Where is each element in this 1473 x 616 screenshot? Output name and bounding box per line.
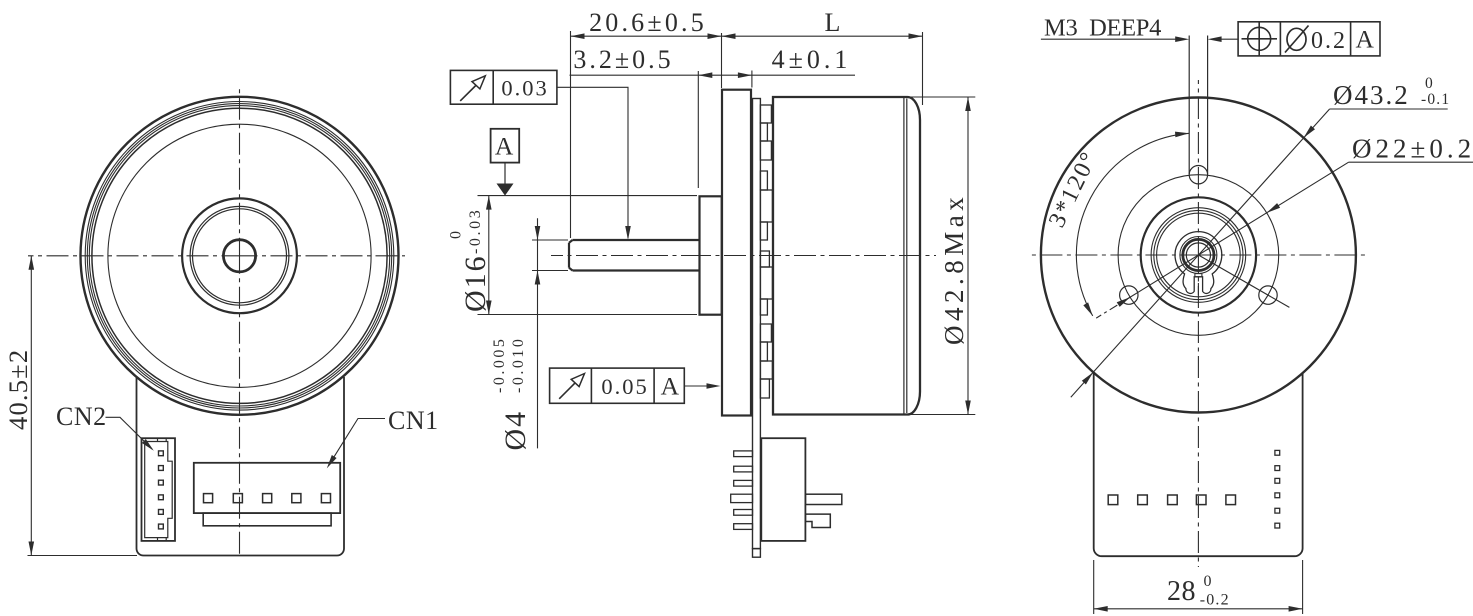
CN1 skirt (side view) — [805, 514, 830, 527]
svg-text:28: 28 — [1167, 576, 1196, 607]
dimension Ø4 extension bottom — [532, 270, 568, 272]
front view: shaft bore circle — [223, 240, 255, 272]
connector CN2 body (side view) — [761, 438, 805, 541]
front view: hub ring outer — [190, 206, 289, 305]
svg-text:0: 0 — [1425, 75, 1434, 92]
svg-text:M3 DEEP4: M3 DEEP4 — [1044, 15, 1161, 42]
datum A box — [491, 129, 520, 163]
M3 tapped hole lower-right — [1259, 286, 1277, 304]
motor body can (side view) — [773, 97, 920, 415]
dimension Ø42.8 extension bottom — [908, 414, 975, 416]
rear view: retainer ring 2 — [1154, 210, 1243, 299]
front view: hub boss circle — [182, 198, 297, 313]
dimension 3.2 and 4 line — [570, 72, 856, 78]
M3 callout leader — [1041, 36, 1189, 42]
svg-text:Ø22±0.2: Ø22±0.2 — [1352, 134, 1473, 164]
svg-text:-0.2: -0.2 — [1200, 592, 1230, 609]
front view: horizontal centerline — [28, 255, 405, 257]
rear view: slot top tab — [1195, 274, 1202, 277]
dimension Ø42.8 line — [965, 97, 971, 415]
motor shaft (side view) — [569, 240, 700, 271]
front view: case curl ring 2 — [87, 104, 391, 408]
dimension 40.5±2 extension line — [28, 555, 138, 557]
svg-text:L: L — [824, 8, 841, 37]
dimension 20.6±0.5 line — [571, 33, 722, 39]
rear view: hub circle — [1141, 197, 1256, 312]
svg-text:Ø16: Ø16 — [459, 254, 492, 312]
lower-left hole centerline — [1096, 297, 1130, 318]
front view: hub ring inner — [193, 209, 287, 303]
dimension 20.6±0.5 extension line left — [570, 31, 572, 238]
svg-text:-0.1: -0.1 — [1421, 91, 1450, 108]
rear view: vertical centerline — [1197, 80, 1199, 567]
datum A triangle — [497, 163, 514, 196]
dimension 28 line — [1094, 606, 1303, 612]
rear view: horizontal centerline — [1032, 254, 1365, 256]
dimension Ø43.2 leader — [1071, 109, 1448, 397]
M3 tapped hole top — [1189, 166, 1207, 184]
front boss Ø16 (side view) — [700, 196, 722, 314]
rear view: retainer keyhole slot — [1183, 274, 1214, 294]
rear view: retainer ring 3 — [1157, 213, 1241, 297]
dimension Ø16 extension top — [478, 195, 698, 197]
rear view: shaft chamfer circle — [1186, 243, 1210, 267]
dimension 4±0.1 extension line — [751, 71, 753, 88]
end cap inner line — [906, 99, 908, 414]
rear view: CN2 pads — [1275, 450, 1280, 528]
front view: motor outer case circle — [81, 97, 399, 415]
front view: vertical centerline — [239, 89, 241, 554]
GD&T frame: position Ø0.2 A — [1208, 21, 1380, 56]
connector CN1 (front view) — [194, 463, 340, 526]
CN1 wafer tab (side view) — [805, 494, 841, 504]
connector CN2 (front view) — [142, 438, 176, 541]
svg-text:0.03: 0.03 — [501, 76, 548, 101]
GD&T frame: circular runout 0.03 — [450, 70, 557, 104]
dimension L extension line right — [922, 32, 924, 105]
rear view: CN1 pads — [1108, 495, 1235, 505]
rear view: PCB board outline — [1094, 373, 1303, 557]
leader from 0.05 frame to plate — [684, 383, 720, 389]
rear view: slot centerline — [1197, 283, 1199, 295]
front view: PCB board outline — [137, 377, 345, 556]
M3 tapped hole lower-left — [1120, 286, 1138, 304]
leader line to CN1 — [327, 419, 385, 469]
leader from runout frame to shaft — [557, 87, 631, 240]
dimension 3.2±0.5 extension line — [697, 71, 699, 188]
front view: case curl ring 1 — [85, 102, 394, 411]
CN2 pins (side view) — [731, 451, 753, 530]
lower-right hole radial line — [1198, 255, 1289, 307]
mounting plate (side view) — [722, 90, 751, 416]
dimension Ø4 extension top — [532, 239, 568, 241]
front view: case curl ring 3 — [89, 106, 389, 406]
dimension Ø16 line — [486, 196, 492, 315]
M3 hole projection lines — [1189, 36, 1207, 175]
svg-text:0.05: 0.05 — [601, 374, 648, 399]
svg-text:A: A — [661, 372, 681, 401]
dimension 28 extension lines — [1094, 560, 1303, 614]
svg-text:-0.010: -0.010 — [510, 337, 527, 393]
svg-text:A: A — [495, 132, 515, 161]
svg-text:-0.005: -0.005 — [491, 337, 508, 393]
rear view: washer circle — [1175, 232, 1222, 275]
shared extension line at plate face — [721, 33, 723, 88]
rear view: shaft ring thin — [1180, 237, 1217, 274]
svg-text:Ø42.8Max: Ø42.8Max — [939, 193, 969, 345]
side view: shaft centerline — [551, 255, 936, 257]
svg-text:CN2: CN2 — [56, 402, 107, 431]
dimension Ø4 line — [535, 218, 541, 448]
PCB edge (side view) — [753, 99, 761, 549]
rear view: outer case circle — [1041, 98, 1356, 413]
end cap seam line — [903, 97, 905, 415]
svg-text:3.2±0.5: 3.2±0.5 — [573, 45, 673, 74]
leader line to CN2 — [106, 417, 154, 451]
rear view: retainer ring 1 — [1151, 208, 1246, 303]
dimension L line — [722, 33, 923, 39]
svg-text:CN1: CN1 — [388, 406, 439, 435]
svg-text:-0.03: -0.03 — [467, 208, 484, 254]
PCB bottom cap (side view) — [753, 549, 761, 558]
rear view: bolt circle Ø22 — [1118, 175, 1279, 336]
rear view: shaft circle bold — [1183, 239, 1214, 270]
dimension Ø16 extension bottom — [478, 314, 698, 316]
svg-text:40.5±2: 40.5±2 — [3, 349, 33, 430]
stator terminal strip (side view) — [760, 105, 772, 398]
front view: case curl ring 4 — [92, 108, 387, 403]
svg-text:Ø43.2: Ø43.2 — [1333, 80, 1410, 110]
svg-text:4±0.1: 4±0.1 — [772, 45, 852, 74]
svg-text:0.2: 0.2 — [1311, 28, 1347, 54]
GD&T frame: circular runout 0.05 datum A — [550, 368, 685, 403]
dimension 40.5±2 line — [29, 256, 35, 556]
svg-text:20.6±0.5: 20.6±0.5 — [589, 8, 707, 37]
svg-text:Ø4: Ø4 — [499, 410, 532, 451]
svg-text:0: 0 — [1204, 573, 1213, 590]
front view: rotor face circle — [108, 124, 371, 387]
3x120° angular arc — [1076, 132, 1189, 316]
dimension Ø42.8 extension top — [908, 96, 975, 98]
svg-text:0: 0 — [448, 230, 465, 239]
dimension Ø22 leader — [1117, 162, 1473, 307]
svg-text:A: A — [1355, 25, 1375, 54]
